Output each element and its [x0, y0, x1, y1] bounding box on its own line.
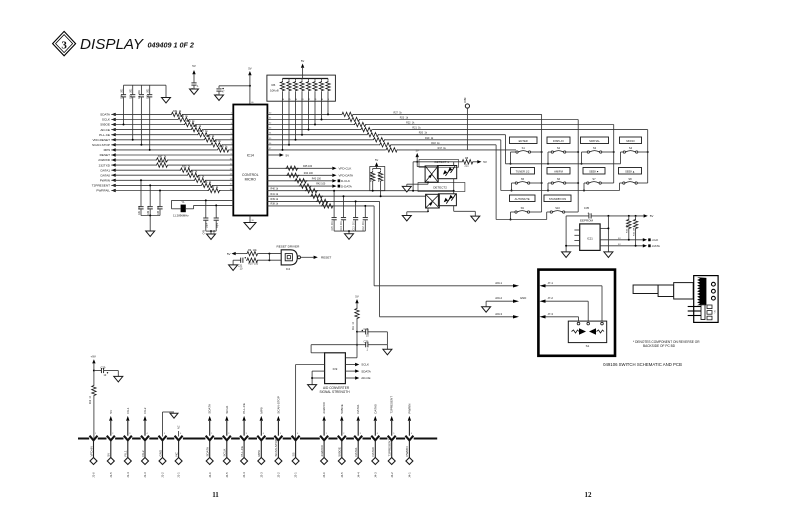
node J2-1 SS — [291, 433, 299, 478]
svg-text:R11 10: R11 10 — [353, 321, 355, 330]
power 5V RP1 — [376, 166, 378, 169]
wire S9 right pin — [530, 211, 542, 213]
svg-text:C13 .001: C13 .001 — [353, 220, 355, 230]
svg-text:R33 1k: R33 1k — [182, 166, 191, 169]
svg-text:S7: S7 — [592, 177, 596, 181]
svg-text:J4-6: J4-6 — [322, 472, 326, 478]
svg-text:1: 1 — [95, 433, 96, 435]
switch S2 DISPLAY — [547, 137, 570, 153]
resistor R12 10 — [92, 385, 96, 397]
svg-text:S5: S5 — [521, 177, 525, 181]
svg-text:S1: S1 — [586, 344, 590, 348]
svg-text:R25 1k: R25 1k — [213, 140, 222, 143]
wire GND pin elbow — [162, 412, 164, 437]
wire RESET to IC14 — [111, 154, 233, 156]
svg-text:R44 100: R44 100 — [304, 172, 314, 175]
wire connector bus — [78, 438, 437, 440]
svg-text:T2PRESENT: T2PRESENT — [92, 184, 110, 188]
svg-text:SCAN-STOP: SCAN-STOP — [92, 143, 110, 147]
node J4-5 595OE — [338, 404, 346, 478]
wire IC14 matrix row 4 — [267, 129, 647, 131]
svg-text:5V: 5V — [286, 153, 290, 157]
svg-text:2: 2 — [343, 433, 344, 435]
resistor R51 1k on 232RXD — [156, 157, 169, 162]
wire IC14 matrix row 8 — [267, 149, 516, 151]
svg-text:VFD-CLK: VFD-CLK — [339, 167, 352, 171]
svg-text:3: 3 — [246, 433, 247, 435]
svg-text:MP9: MP9 — [259, 407, 263, 414]
svg-text:.1: .1 — [197, 85, 200, 88]
wire R9 to gate — [259, 253, 282, 255]
svg-text:10Kx8: 10Kx8 — [270, 89, 279, 93]
svg-text:5V: 5V — [227, 252, 231, 256]
wire R6 pin to row 8 — [282, 101, 284, 150]
wire S4 left pin — [621, 151, 624, 153]
svg-text:R17 1k: R17 1k — [438, 147, 447, 150]
wire matrix column 4 — [647, 130, 649, 183]
svg-text:S1: S1 — [522, 146, 526, 150]
svg-text:12: 12 — [585, 491, 593, 499]
wire to J20-1 — [267, 205, 374, 207]
svg-text:SEEK▲: SEEK▲ — [625, 169, 635, 173]
svg-text:5V: 5V — [355, 295, 359, 299]
resistor R27 1k — [341, 112, 354, 117]
svg-text:C8 .001: C8 .001 — [138, 89, 141, 99]
wire MP9 to IC14 — [111, 149, 233, 151]
wire R6 pin to row 1 — [327, 101, 329, 114]
svg-text:J2-1: J2-1 — [294, 472, 298, 478]
wire S3 right pin — [602, 151, 614, 153]
capacitor C46 30pF — [215, 205, 217, 217]
svg-text:T2PRESENT: T2PRESENT — [390, 396, 394, 414]
svg-text:20: 20 — [252, 220, 255, 222]
wire R6 pin to row 6 — [295, 101, 297, 140]
svg-text:C29: C29 — [101, 365, 106, 369]
svg-text:J20-2: J20-2 — [495, 296, 502, 300]
svg-text:C14 .001: C14 .001 — [341, 220, 343, 230]
resistor R45 100 — [286, 166, 299, 171]
node J4-1 PWRIN — [405, 404, 413, 478]
wire S7 right pin — [601, 182, 613, 184]
node J2-2 SCAN-STOP — [274, 396, 282, 478]
svg-text:.1: .1 — [366, 349, 369, 352]
wire S7 left pin — [584, 182, 587, 184]
svg-text:595OE: 595OE — [100, 123, 110, 127]
wire C38 right — [386, 332, 388, 345]
switch S5 TUNER 1/2 — [511, 168, 535, 185]
wire R6 pin to row 4 — [308, 101, 310, 129]
wire NC stub — [178, 431, 180, 437]
svg-text:DISPLAY: DISPLAY — [553, 139, 564, 143]
svg-text:DATA1: DATA1 — [100, 168, 110, 172]
svg-text:FIL1: FIL1 — [126, 407, 130, 413]
node terminal TP1 — [465, 104, 469, 108]
wire matrix return row 2 — [500, 140, 502, 191]
resistor R30 1k on SCLK — [177, 117, 190, 122]
node J2-4 PLL-CE — [240, 403, 248, 478]
svg-text:R27 1k: R27 1k — [199, 130, 208, 133]
svg-text:J7-1: J7-1 — [548, 281, 554, 285]
svg-text:NC: NC — [178, 425, 181, 429]
node S-DATA — [600, 245, 643, 247]
resistor R17 1k — [385, 147, 398, 152]
wire matrix return row 3 — [495, 145, 497, 220]
svg-text:S9: S9 — [521, 206, 525, 210]
svg-text:SDATA: SDATA — [361, 369, 371, 373]
wire eeprom 5V rail — [566, 215, 589, 217]
svg-text:049106 SWITCH SCHEMATIC AND PC: 049106 SWITCH SCHEMATIC AND PCB — [603, 362, 682, 367]
wire D-DATA — [267, 185, 332, 187]
svg-text:R43 100: R43 100 — [312, 177, 322, 180]
wire DATA1 to IC14 — [111, 169, 233, 171]
resistor R10 100 — [246, 258, 259, 262]
svg-text:T2PRESENT: T2PRESENT — [388, 439, 392, 457]
wire AD-CE to IC14 — [111, 129, 233, 131]
svg-text:R18 1k: R18 1k — [431, 142, 440, 145]
svg-text:J1-3: J1-3 — [143, 472, 147, 478]
switch S9 AUTOMUTE — [510, 195, 536, 213]
svg-text:R34 1k: R34 1k — [189, 171, 198, 174]
resistor R23 1k — [347, 117, 360, 122]
svg-text:SDATA: SDATA — [208, 404, 212, 414]
capacitor C38 10 — [357, 331, 366, 333]
ground A/D — [308, 385, 317, 391]
svg-text:MICRO: MICRO — [245, 178, 257, 182]
node J4-6 232RXD — [320, 401, 328, 477]
resistor R50 1k on DATA1 — [180, 168, 193, 173]
svg-text:DISPLAY: DISPLAY — [80, 36, 145, 53]
ground detect1 — [406, 184, 408, 186]
svg-text:R30 1k: R30 1k — [180, 115, 189, 118]
svg-text:R26 1k: R26 1k — [206, 135, 215, 138]
resistor R19 1k — [373, 137, 386, 142]
svg-text:SIGNAL STRENGTH: SIGNAL STRENGTH — [320, 390, 351, 394]
svg-text:1: 1 — [326, 433, 327, 435]
ground C31 — [232, 260, 234, 265]
wire crystal caps common — [206, 230, 216, 232]
wire IC14 XTAL1 — [172, 199, 234, 201]
wire SCAN-STOP to IC14 — [111, 144, 233, 146]
resistor R8 221 — [461, 160, 474, 164]
resistor R41 1k — [310, 194, 323, 199]
svg-text:10: 10 — [240, 268, 243, 271]
svg-text:J7-2: J7-2 — [548, 296, 554, 300]
svg-text:-DATA: -DATA — [652, 244, 660, 248]
svg-text:STANDBY/ON: STANDBY/ON — [549, 197, 566, 201]
svg-text:D-DATA: D-DATA — [341, 184, 352, 188]
wire S8 left pin — [620, 182, 623, 184]
power 5V detect1 — [416, 153, 419, 157]
svg-text:GND: GND — [520, 296, 526, 300]
svg-text:J4-1: J4-1 — [408, 472, 412, 478]
svg-text:R36 1k: R36 1k — [203, 181, 212, 184]
resistor R25 1k on SCAN-STOP — [210, 142, 223, 147]
power 5V to IC14 pin 40 — [248, 71, 251, 75]
ground IC14 pin 20 — [249, 216, 251, 223]
wire eeprom wp — [600, 227, 608, 229]
wire detect1 emitter cathode — [427, 182, 429, 184]
module switch schematic box — [538, 270, 615, 356]
svg-text:S4: S4 — [629, 146, 633, 150]
svg-text:RESET DRIVER: RESET DRIVER — [277, 244, 301, 248]
svg-text:FIL1: FIL1 — [124, 450, 128, 456]
svg-text:R28 1k: R28 1k — [193, 125, 202, 128]
opto sensor detect1 — [437, 166, 456, 179]
ground detect2 left — [406, 212, 408, 216]
resistor R20 1k — [366, 132, 379, 137]
svg-text:595OE: 595OE — [338, 447, 342, 456]
wire J7-2 to S1 encoder — [546, 300, 589, 302]
node S-CLK — [600, 239, 643, 241]
node J1-4 FIL1 — [124, 407, 132, 478]
wire R11 to caps — [356, 331, 358, 333]
wire A/D vcc loop — [311, 344, 357, 346]
capacitor C43 .001 — [159, 191, 161, 207]
wire SCLK to IC14 — [111, 119, 233, 121]
svg-text:S6: S6 — [557, 177, 561, 181]
switch S10 STANDBY/ON — [544, 195, 571, 213]
capacitor C15 .001 — [333, 191, 335, 217]
wire SDATA to IC14 — [111, 113, 233, 115]
opto emitter detect2 — [426, 194, 440, 208]
resistor R15 10K — [635, 216, 637, 219]
svg-text:PLL-CE: PLL-CE — [240, 446, 244, 457]
svg-text:SCLK: SCLK — [225, 406, 229, 414]
node J7-3 — [540, 315, 546, 318]
wire to J20-3 — [267, 200, 379, 202]
svg-text:RESET: RESET — [321, 256, 331, 260]
svg-text:5: 5 — [393, 433, 394, 435]
resistor R22 1k — [354, 122, 367, 127]
wire S10 right pin — [565, 211, 578, 213]
svg-text:C38: C38 — [364, 327, 369, 331]
resistor R43 100 — [294, 178, 307, 183]
svg-text:PLL-CE: PLL-CE — [242, 403, 246, 414]
svg-text:GND: GND — [158, 449, 162, 457]
svg-text:J4-5: J4-5 — [340, 472, 344, 478]
node J1-2 GND — [158, 433, 166, 478]
node D-CLK — [332, 179, 336, 182]
svg-text:R9 10k: R9 10k — [248, 249, 257, 252]
svg-text:J2-4: J2-4 — [242, 472, 246, 478]
svg-text:J4-2: J4-2 — [390, 472, 394, 478]
svg-text:6: 6 — [180, 433, 181, 435]
svg-text:DETECT2: DETECT2 — [433, 186, 447, 190]
node A/D AD-CE — [345, 377, 355, 379]
svg-text:AD-CE: AD-CE — [100, 128, 110, 132]
resistor R18 1k — [379, 142, 392, 147]
power 5V for C33 — [192, 70, 195, 74]
svg-text:SDATA: SDATA — [206, 447, 210, 457]
wire PLL-CE to IC14 — [111, 134, 233, 136]
svg-text:DATA0: DATA0 — [100, 173, 110, 177]
wire PWRFAIL to IC14 — [111, 190, 233, 192]
svg-text:R35 1k: R35 1k — [196, 176, 205, 179]
op IC21 eeprom — [580, 224, 600, 251]
wire gate input tie — [268, 254, 270, 261]
wire 232TXD to IC14 — [111, 164, 233, 166]
svg-text:S2: S2 — [557, 146, 561, 150]
wire detect1 pullup line — [413, 161, 461, 163]
op IC9 A/D converter — [325, 353, 346, 384]
svg-text:11.2896MHz: 11.2896MHz — [173, 214, 189, 218]
switch S3 SPATIAL — [581, 137, 609, 153]
resistor R29 1k on 595OE — [184, 122, 197, 127]
wire IC14 matrix row 3 — [267, 124, 613, 126]
wire T2PRESENT to IC14 — [111, 184, 233, 186]
capacitor C23 .001 — [132, 85, 134, 94]
ground C33 — [190, 89, 199, 95]
node A/D SCLK — [345, 364, 355, 366]
svg-text:J2-5: J2-5 — [225, 472, 229, 478]
svg-text:C35: C35 — [584, 206, 590, 210]
wire detect1 anode — [417, 166, 425, 168]
svg-text:30pF: 30pF — [217, 222, 219, 228]
svg-text:5V: 5V — [107, 453, 111, 457]
capacitor C41 .001 — [140, 180, 142, 206]
wire VFD-RESET to IC14 — [111, 139, 233, 141]
svg-text:232RXD: 232RXD — [322, 401, 326, 413]
svg-text:C24 .001: C24 .001 — [120, 88, 123, 99]
resistor R53 1k on T2PRESENT — [201, 183, 214, 188]
svg-text:J1-2: J1-2 — [161, 472, 165, 478]
wire 232RXD to IC14 — [111, 159, 233, 161]
capacitor C13 .001 — [355, 201, 357, 217]
wire IC14 matrix row 1 — [267, 113, 541, 115]
svg-text:VFD-RESET: VFD-RESET — [92, 138, 110, 142]
power 5V for R6 — [301, 64, 304, 68]
svg-text:5V: 5V — [301, 59, 305, 63]
svg-text:SCLK: SCLK — [361, 363, 369, 367]
svg-text:5: 5 — [164, 433, 165, 435]
wire detect1 sensor output — [453, 179, 455, 191]
svg-text:VFD-9V: VFD-9V — [89, 446, 93, 457]
capacitor C12 .001 — [364, 206, 366, 217]
node RESET output — [301, 256, 314, 258]
svg-text:PLL-CE: PLL-CE — [99, 133, 110, 137]
svg-text:3: 3 — [360, 433, 361, 435]
svg-text:221: 221 — [465, 164, 470, 167]
svg-text:PWRIN: PWRIN — [100, 179, 110, 183]
svg-text:C42 .001: C42 .001 — [148, 205, 150, 215]
ground cap bank — [165, 85, 167, 97]
crystal Y1 11.2896MHz — [172, 200, 194, 217]
node D-DATA — [332, 184, 336, 187]
svg-text:MONO: MONO — [626, 139, 634, 143]
node J1-6 VFD-9V — [89, 433, 97, 478]
node J1-1 NC — [174, 433, 182, 478]
svg-text:R12 10: R12 10 — [90, 395, 92, 404]
wire J7-3 to S1 encoder — [546, 316, 579, 318]
svg-text:BACKSIDE OF PC BD: BACKSIDE OF PC BD — [643, 344, 676, 348]
svg-text:SCAN-STOP: SCAN-STOP — [274, 439, 278, 456]
node J1-3 FIL2 — [141, 407, 149, 478]
wire S5 left pin — [512, 182, 516, 184]
svg-text:R10 100: R10 100 — [248, 263, 259, 266]
wire VFD-DATA — [267, 174, 332, 176]
svg-text:C36: C36 — [364, 340, 369, 344]
svg-text:EEPROM: EEPROM — [580, 219, 594, 223]
svg-text:DATA0: DATA0 — [373, 404, 377, 414]
svg-text:S10: S10 — [555, 206, 560, 210]
ground eeprom left — [562, 252, 571, 258]
svg-text:VFD-DATA: VFD-DATA — [339, 174, 354, 178]
svg-text:J2-6: J2-6 — [208, 472, 212, 478]
svg-text:2: 2 — [228, 433, 229, 435]
power 5V A/D — [355, 299, 358, 303]
wire A/D ground pins — [312, 370, 325, 372]
capacitor C42 .001 — [149, 185, 151, 206]
node J4-3 DATA0 — [371, 404, 379, 478]
power 5V IC14 pin — [267, 154, 279, 156]
svg-text:SCLK: SCLK — [102, 118, 111, 122]
ground filter caps — [149, 216, 151, 232]
wire S2 right pin — [566, 151, 578, 153]
svg-text:J1-6: J1-6 — [92, 472, 96, 478]
resistor R51 1k on DATA0 — [187, 173, 200, 178]
ground J20-2 — [482, 307, 491, 313]
svg-text:NC: NC — [174, 451, 178, 456]
capacitor C36 .1 — [357, 344, 366, 346]
node J1-5 5V — [107, 410, 115, 478]
svg-text:SPATIAL: SPATIAL — [589, 139, 600, 143]
wire IC14 matrix row 5 — [267, 134, 505, 136]
resistor R54 1k on PWRFAIL — [208, 188, 221, 193]
node VFD-CLK — [332, 167, 336, 170]
svg-text:3: 3 — [61, 39, 67, 51]
wire S8 right pin — [637, 182, 647, 184]
opto emitter detect1 — [425, 166, 438, 182]
resistor R40 1k — [305, 188, 318, 193]
resistor network R6 10Kx8 — [267, 75, 336, 101]
node J2-6 SDATA — [206, 404, 214, 478]
ground eeprom right — [604, 252, 613, 258]
wire encoder caps common — [334, 230, 365, 232]
svg-text:R8: R8 — [465, 157, 469, 160]
svg-text:J2-3: J2-3 — [259, 472, 263, 478]
module DETECT1 outline — [419, 160, 459, 168]
svg-text:R48 1k: R48 1k — [158, 161, 167, 164]
svg-text:PWRFAIL: PWRFAIL — [96, 189, 110, 193]
svg-text:DATA0: DATA0 — [371, 447, 375, 457]
svg-text:R31 1k: R31 1k — [173, 110, 182, 113]
svg-text:J4-4: J4-4 — [356, 472, 360, 478]
node VFD-DATA — [332, 174, 336, 177]
wire S10 left pin — [547, 211, 550, 213]
wire 5V to C32 — [219, 85, 250, 87]
svg-text:IC9: IC9 — [333, 367, 338, 371]
node J2-5 SCLK — [223, 406, 231, 478]
encoder pcb pins — [688, 306, 701, 308]
ground C29 — [117, 371, 119, 377]
svg-text:-CLK: -CLK — [652, 238, 659, 242]
wire S9 left pin — [511, 211, 515, 213]
svg-text:J1-1: J1-1 — [177, 472, 181, 478]
wire PWRIN to IC14 — [111, 179, 233, 181]
svg-text:J7-3: J7-3 — [548, 312, 554, 316]
wire eeprom vss — [565, 216, 567, 252]
resistor R52 1k on PWRIN — [194, 178, 207, 183]
svg-text:C43 .001: C43 .001 — [158, 205, 160, 215]
ground encoder caps — [348, 231, 350, 234]
node J4-2 T2PRESENT — [388, 396, 396, 478]
svg-text:SCLK: SCLK — [223, 449, 227, 457]
capacitor C31 10 — [233, 259, 241, 261]
switch S1 ENTER — [510, 137, 538, 153]
svg-text:SS: SS — [291, 452, 295, 456]
node J4-4 DATA1 — [354, 404, 362, 478]
resistor R52 1k on 232TXD — [156, 163, 169, 168]
